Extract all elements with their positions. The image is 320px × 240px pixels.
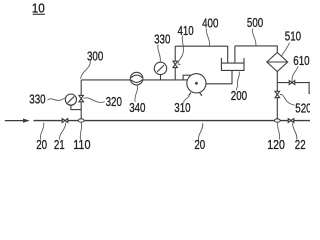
svg-text:610: 610 bbox=[293, 53, 309, 68]
svg-text:300: 300 bbox=[87, 48, 103, 63]
gauge 330 (upper) bbox=[154, 62, 166, 80]
svg-text:20: 20 bbox=[194, 137, 205, 152]
wire line 300 bbox=[81, 79, 183, 81]
wire valve-410 vertical bbox=[174, 46, 176, 80]
leader 200 bbox=[236, 72, 239, 91]
svg-text:200: 200 bbox=[231, 88, 247, 103]
svg-text:120: 120 bbox=[267, 137, 285, 152]
valve 520 bbox=[275, 91, 280, 97]
cut-off component right edge bbox=[308, 83, 311, 93]
leader 340 bbox=[135, 85, 138, 102]
valve 21 bbox=[62, 119, 68, 123]
svg-text:110: 110 bbox=[73, 137, 90, 152]
wire line 400 bbox=[175, 46, 228, 63]
tank 200 right dip pipe bbox=[234, 46, 236, 63]
leader 330 upper bbox=[158, 45, 161, 62]
flow arrow bbox=[5, 119, 30, 123]
pump U310 body bbox=[187, 74, 206, 93]
svg-text:10: 10 bbox=[32, 1, 45, 16]
leader 520 bbox=[280, 95, 295, 106]
wire pump discharge bbox=[206, 70, 232, 83]
wire riser 110-300 bbox=[80, 80, 82, 121]
gauge 330 (left) bbox=[65, 94, 81, 110]
leader 22 bbox=[293, 123, 297, 140]
leader lines bbox=[40, 29, 298, 141]
tank 200 liquid level bbox=[221, 62, 244, 64]
svg-text:500: 500 bbox=[247, 15, 263, 30]
fitting 120 bbox=[274, 119, 280, 122]
leader 110 bbox=[80, 123, 81, 140]
leader 300 bbox=[81, 61, 91, 79]
leader 510 bbox=[281, 43, 289, 57]
svg-text:330: 330 bbox=[29, 92, 45, 107]
svg-text:410: 410 bbox=[178, 23, 194, 38]
pump U310 shaft dot bbox=[195, 82, 198, 85]
leader 320 bbox=[84, 98, 105, 103]
leader 20 mid bbox=[198, 123, 202, 141]
tank 200 bbox=[221, 58, 244, 71]
svg-text:400: 400 bbox=[202, 16, 218, 31]
filter 510 bbox=[267, 53, 288, 72]
pump U310 feet bbox=[189, 93, 202, 96]
svg-text:310: 310 bbox=[174, 100, 190, 115]
leader 20 bbox=[40, 123, 43, 140]
pump U310 volute bbox=[183, 75, 191, 80]
valve 610 bbox=[289, 81, 295, 85]
leader 310 bbox=[184, 96, 190, 103]
svg-text:21: 21 bbox=[54, 137, 65, 152]
wire line 500 bbox=[235, 46, 277, 53]
valve 320 bbox=[79, 95, 84, 101]
svg-text:330: 330 bbox=[154, 31, 170, 46]
wire riser filter-to-pipe bbox=[276, 72, 278, 121]
svg-text:520: 520 bbox=[295, 101, 310, 116]
main pipe 20 bbox=[34, 120, 311, 122]
leader 500 bbox=[252, 29, 256, 46]
svg-text:20: 20 bbox=[36, 137, 47, 152]
meter 340 bbox=[130, 72, 143, 85]
svg-text:510: 510 bbox=[285, 29, 301, 44]
valve 410 bbox=[173, 61, 178, 67]
leader 400 bbox=[206, 29, 209, 46]
leader 330 left bbox=[48, 98, 65, 101]
underline of 10 bbox=[33, 13, 45, 15]
svg-text:340: 340 bbox=[129, 100, 145, 115]
leader 21 bbox=[60, 123, 66, 140]
leader 610 bbox=[292, 67, 298, 83]
svg-text:22: 22 bbox=[295, 137, 306, 152]
wire line 610 bbox=[277, 82, 310, 84]
leader 410 bbox=[178, 36, 184, 65]
leader 120 bbox=[278, 123, 280, 140]
valve 22 bbox=[288, 119, 294, 123]
fitting 110 bbox=[78, 119, 84, 122]
svg-text:320: 320 bbox=[106, 94, 122, 109]
